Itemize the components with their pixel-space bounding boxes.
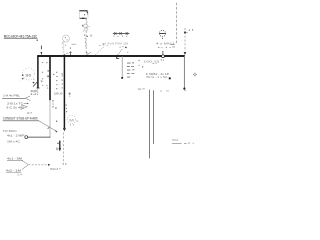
svg-text:1-A 4x PNL: 1-A 4x PNL xyxy=(3,93,21,97)
svg-text:w/ 4x4 PW 1B: w/ 4x4 PW 1B xyxy=(102,41,128,45)
svg-text:1-2: 1-2 xyxy=(30,92,37,96)
svg-text:SCJ: SCJ xyxy=(50,167,59,171)
svg-text:50 G - 1 x 5A: 50 G - 1 x 5A xyxy=(146,75,167,79)
svg-text:1.4: 1.4 xyxy=(17,173,23,177)
svg-text:86: 86 xyxy=(25,74,31,78)
svg-text:4x1 - 5M: 4x1 - 5M xyxy=(7,156,23,160)
svg-text:1M x 4C: 1M x 4C xyxy=(7,139,20,143)
svg-text:3-C 2x 480: 3-C 2x 480 xyxy=(6,105,25,109)
svg-text:4x2 - 1M: 4x2 - 1M xyxy=(6,168,22,172)
svg-text:M: M xyxy=(69,118,74,122)
svg-text:TO MCC: TO MCC xyxy=(3,129,17,133)
svg-text:5M: 5M xyxy=(172,138,179,142)
svg-text:18.6: 18.6 xyxy=(54,91,64,95)
svg-text:100-15: 100-15 xyxy=(143,59,160,63)
svg-text:CONDUIT STUB-UP 4x480: CONDUIT STUB-UP 4x480 xyxy=(3,117,38,121)
svg-text:MCC-MCP-4F1-T5A-1SC: MCC-MCP-4F1-T5A-1SC xyxy=(4,34,38,38)
svg-text:4x1 - 2 M/F: 4x1 - 2 M/F xyxy=(7,133,25,137)
